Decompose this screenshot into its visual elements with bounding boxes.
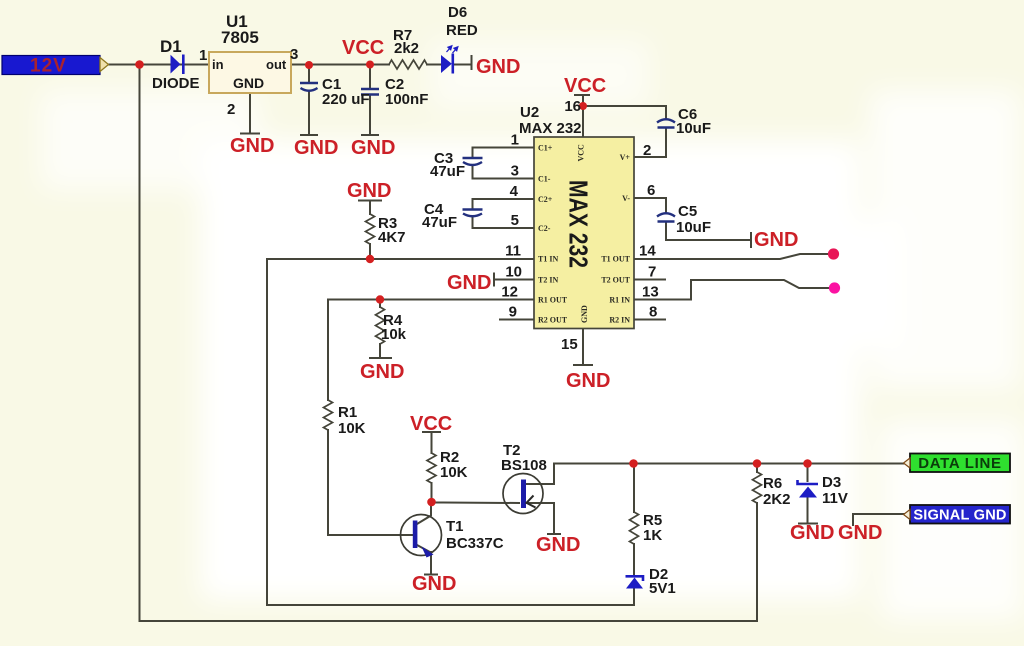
svg-text:GND: GND xyxy=(838,522,882,544)
svg-text:GND: GND xyxy=(790,522,834,544)
svg-text:10uF: 10uF xyxy=(676,219,711,236)
svg-text:VCC: VCC xyxy=(410,413,452,435)
svg-text:GND: GND xyxy=(536,534,580,556)
svg-text:2K2: 2K2 xyxy=(763,491,791,508)
svg-text:VCC: VCC xyxy=(342,37,384,59)
svg-text:VCC: VCC xyxy=(564,75,606,97)
svg-text:10k: 10k xyxy=(381,326,407,343)
svg-text:GND: GND xyxy=(476,56,520,78)
svg-text:2: 2 xyxy=(227,101,235,118)
svg-text:10uF: 10uF xyxy=(676,120,711,137)
svg-text:1: 1 xyxy=(199,47,207,64)
svg-text:R1 IN: R1 IN xyxy=(609,296,630,305)
svg-text:1: 1 xyxy=(511,132,519,149)
svg-text:10K: 10K xyxy=(440,464,468,481)
svg-text:R2 IN: R2 IN xyxy=(609,316,630,325)
svg-text:7: 7 xyxy=(648,264,656,281)
svg-text:100nF: 100nF xyxy=(385,91,428,108)
svg-text:9: 9 xyxy=(509,304,517,321)
svg-text:2: 2 xyxy=(643,142,651,159)
svg-text:DIODE: DIODE xyxy=(152,75,200,92)
svg-text:C2+: C2+ xyxy=(538,195,553,204)
svg-text:GND: GND xyxy=(447,272,491,294)
svg-text:47uF: 47uF xyxy=(430,163,465,180)
svg-text:BC337C: BC337C xyxy=(446,535,504,552)
svg-text:D3: D3 xyxy=(822,474,841,491)
svg-text:11V: 11V xyxy=(822,490,848,507)
svg-text:out: out xyxy=(266,57,287,72)
svg-text:DATA LINE: DATA LINE xyxy=(918,455,1002,472)
svg-text:GND: GND xyxy=(294,137,338,159)
svg-text:5: 5 xyxy=(511,212,519,229)
svg-text:2k2: 2k2 xyxy=(394,40,419,57)
svg-text:10K: 10K xyxy=(338,420,366,437)
svg-text:T1 IN: T1 IN xyxy=(538,255,558,264)
svg-text:3: 3 xyxy=(290,46,298,63)
svg-text:13: 13 xyxy=(642,284,659,301)
svg-text:3: 3 xyxy=(511,163,519,180)
svg-text:47uF: 47uF xyxy=(422,214,457,231)
svg-text:12: 12 xyxy=(501,284,518,301)
svg-text:T2 IN: T2 IN xyxy=(538,276,558,285)
svg-text:220 uF: 220 uF xyxy=(322,91,370,108)
svg-text:GND: GND xyxy=(230,135,274,157)
svg-text:T1 OUT: T1 OUT xyxy=(601,255,630,264)
svg-text:V-: V- xyxy=(622,194,630,203)
svg-text:16: 16 xyxy=(564,98,581,115)
svg-text:10: 10 xyxy=(505,264,522,281)
svg-text:RED: RED xyxy=(446,22,478,39)
svg-text:R1 OUT: R1 OUT xyxy=(538,296,568,305)
svg-text:VCC: VCC xyxy=(577,144,586,162)
svg-text:15: 15 xyxy=(561,336,578,353)
svg-text:in: in xyxy=(212,57,224,72)
svg-text:R6: R6 xyxy=(763,475,782,492)
svg-text:T2 OUT: T2 OUT xyxy=(601,276,630,285)
svg-text:D6: D6 xyxy=(448,4,467,21)
svg-text:C1+: C1+ xyxy=(538,144,553,153)
svg-text:MAX 232: MAX 232 xyxy=(564,180,594,268)
svg-text:GND: GND xyxy=(351,137,395,159)
svg-text:C1-: C1- xyxy=(538,175,551,184)
svg-text:14: 14 xyxy=(639,243,656,260)
svg-text:6: 6 xyxy=(647,182,655,199)
svg-text:C5: C5 xyxy=(678,203,697,220)
svg-text:GND: GND xyxy=(566,370,610,392)
svg-text:GND: GND xyxy=(233,75,264,91)
svg-text:GND: GND xyxy=(580,305,589,323)
svg-text:D1: D1 xyxy=(160,37,182,56)
svg-text:GND: GND xyxy=(347,180,391,202)
svg-text:4K7: 4K7 xyxy=(378,229,406,246)
svg-text:GND: GND xyxy=(360,361,404,383)
svg-text:R1: R1 xyxy=(338,404,357,421)
svg-text:R2 OUT: R2 OUT xyxy=(538,316,568,325)
svg-text:T1: T1 xyxy=(446,518,464,535)
svg-text:U2: U2 xyxy=(520,104,539,121)
svg-text:GND: GND xyxy=(754,229,798,251)
svg-text:1K: 1K xyxy=(643,527,662,544)
svg-text:GND: GND xyxy=(412,573,456,595)
svg-text:SIGNAL GND: SIGNAL GND xyxy=(913,508,1006,524)
svg-text:C2-: C2- xyxy=(538,224,551,233)
svg-text:MAX 232: MAX 232 xyxy=(519,120,582,137)
svg-text:5V1: 5V1 xyxy=(649,580,676,597)
svg-text:4: 4 xyxy=(510,183,519,200)
svg-text:8: 8 xyxy=(649,304,657,321)
svg-text:7805: 7805 xyxy=(221,28,259,47)
svg-text:11: 11 xyxy=(505,243,521,260)
svg-text:V+: V+ xyxy=(620,153,631,162)
svg-text:BS108: BS108 xyxy=(501,457,547,474)
svg-text:12V: 12V xyxy=(30,56,67,77)
